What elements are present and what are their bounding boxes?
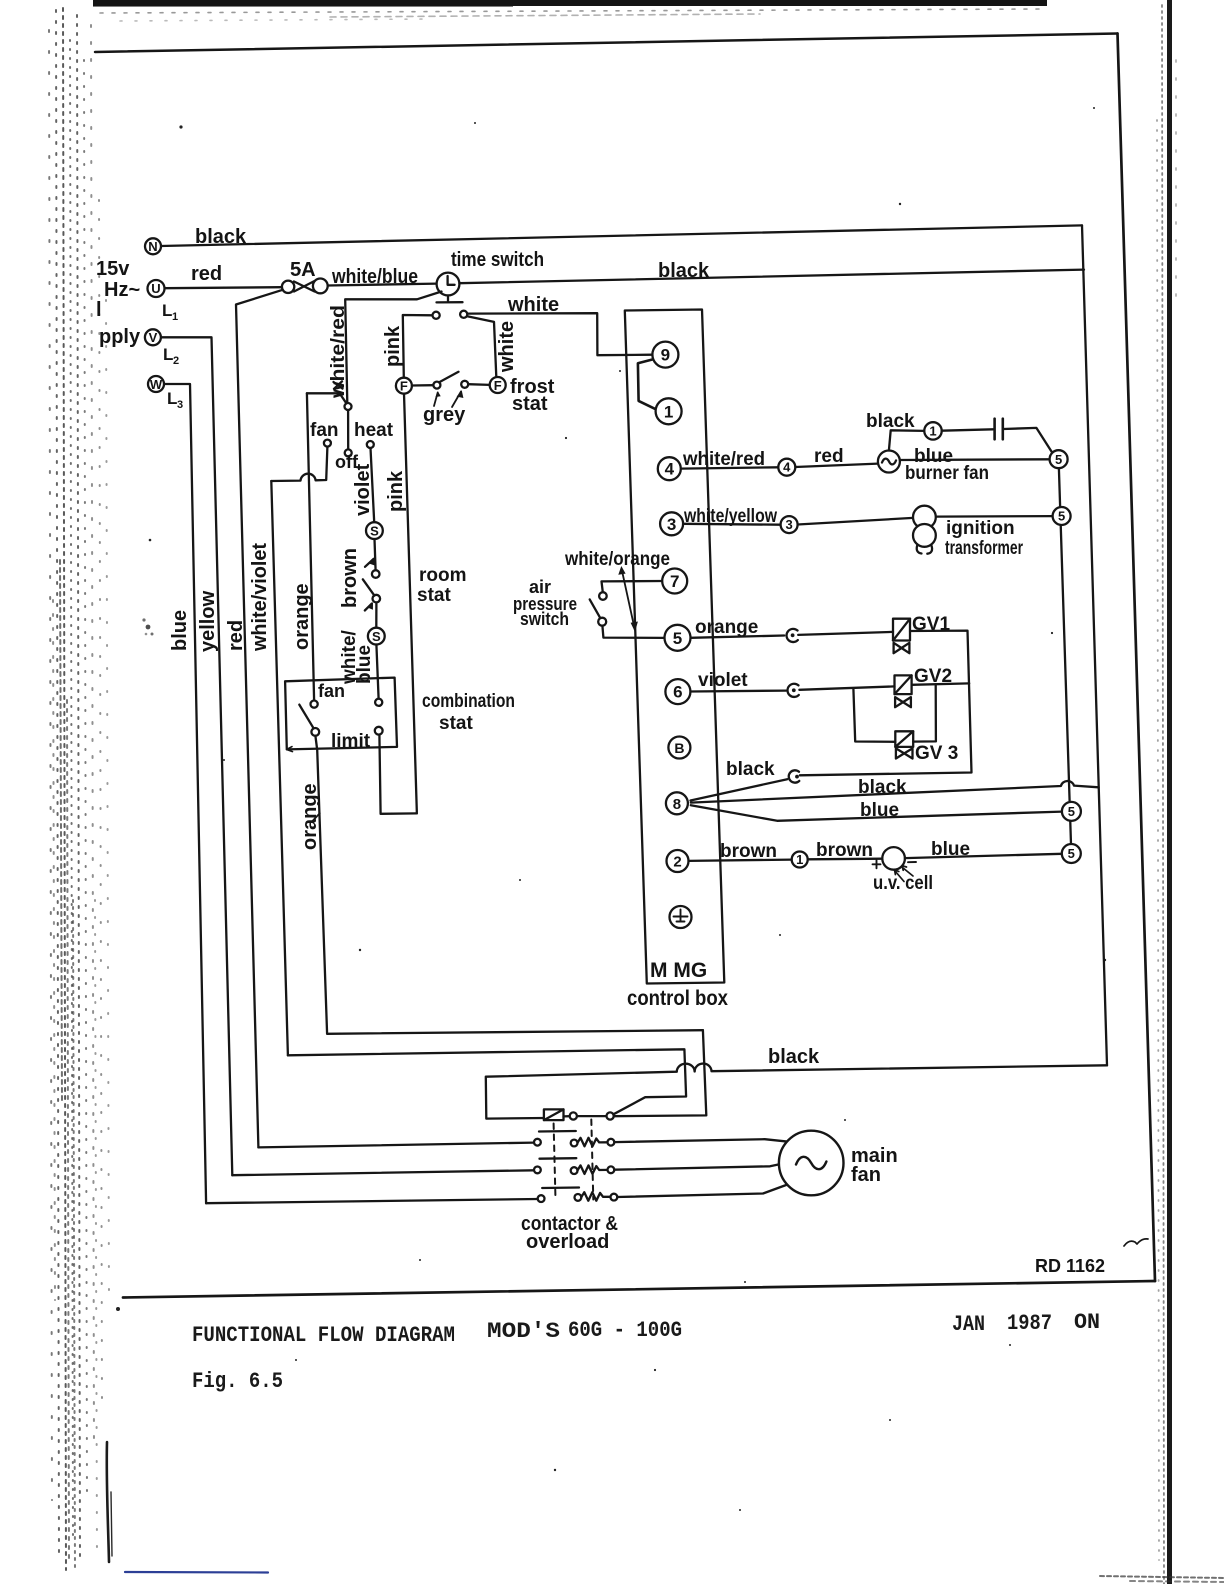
svg-text:red: red (814, 446, 844, 467)
svg-text:fan: fan (310, 420, 339, 441)
terminal 2 (667, 850, 689, 872)
contactor aux contacts (564, 1112, 614, 1119)
svg-text:brown: brown (816, 840, 873, 861)
terminal 7 (662, 569, 687, 594)
jumper bracket terminals 9-1 (638, 359, 656, 409)
svg-text:ignition: ignition (946, 518, 1015, 539)
arrow tick on lower orange (313, 813, 320, 821)
svg-text:black: black (658, 260, 710, 282)
ext terminal 3 (781, 516, 798, 533)
svg-text:grey: grey (423, 404, 466, 426)
valve GV3 (895, 731, 913, 758)
svg-text:5: 5 (1058, 509, 1065, 524)
svg-text:ON: ON (1074, 1310, 1100, 1335)
scan artifact: blue underline bottom-left (125, 1571, 268, 1574)
svg-text:combination: combination (422, 691, 515, 712)
terminal W (148, 376, 164, 392)
svg-text:limit: limit (331, 731, 371, 752)
svg-text:orange: orange (695, 617, 758, 638)
wire pole 1 to main fan (614, 1139, 788, 1142)
wire orange bus upper segment (307, 393, 314, 700)
svg-text:overload: overload (526, 1231, 609, 1253)
svg-text:switch: switch (520, 609, 569, 629)
svg-text:1: 1 (664, 402, 673, 421)
contactor dashed mechanical links (554, 1120, 594, 1200)
svg-text:GV 3: GV 3 (915, 743, 958, 764)
wire white/red drop from time switch to off switch (345, 292, 441, 404)
svg-text:L: L (162, 301, 172, 320)
wire GV1 to right manifold (800, 631, 972, 776)
svg-text:2: 2 (173, 355, 179, 367)
border frame bottom (123, 1281, 1155, 1298)
svg-text:MOD'S: MOD'S (487, 1319, 560, 1344)
terminal 8 (666, 792, 688, 814)
wire blue bus to pole 3 (206, 1199, 538, 1203)
wire orange bus lower from limit fan switch down (315, 736, 703, 1034)
svg-text:time switch: time switch (451, 249, 544, 271)
svg-text:black: black (768, 1046, 820, 1068)
svg-text:white: white (507, 294, 559, 316)
burner fan motor (878, 451, 900, 473)
contactor pole 3 (538, 1188, 618, 1203)
svg-text:burner fan: burner fan (905, 463, 989, 484)
svg-text:black: black (866, 411, 915, 432)
svg-text:4: 4 (783, 460, 791, 475)
terminal 5 (665, 625, 691, 651)
room stat S1 (366, 522, 383, 539)
svg-text:W: W (150, 377, 163, 392)
valve GV1 (893, 619, 910, 654)
terminal earth (670, 906, 692, 928)
wire black terminal 8 to GV manifold with connector (691, 770, 800, 800)
svg-text:5: 5 (673, 629, 682, 648)
MMG control box outline (625, 310, 725, 984)
room stat S2 (368, 628, 385, 645)
terminal 5 second (1053, 507, 1071, 525)
scan artifact: bottom right smudge (1100, 1576, 1224, 1582)
wire white/yellow ext3 to ignition transformer (798, 518, 914, 525)
wire brown terminal 2 to junction 1 (689, 860, 792, 861)
scan artifact: bottom-left pen streak (107, 1442, 109, 1562)
svg-text:GV2: GV2 (914, 666, 952, 687)
wire from off blade to orange bus (307, 392, 340, 394)
border frame top (95, 34, 1118, 53)
svg-text:room: room (419, 565, 467, 586)
svg-text:Hz~: Hz~ (104, 279, 140, 301)
svg-text:15v: 15v (96, 258, 130, 280)
wire blue uv cell to 5 bus (905, 854, 1062, 858)
svg-text:brown: brown (339, 548, 361, 608)
svg-text:3: 3 (785, 517, 792, 532)
svg-text:U: U (151, 281, 160, 296)
terminal 9 (652, 342, 678, 368)
svg-text:V: V (149, 330, 158, 345)
svg-text:black: black (726, 759, 775, 780)
junction terminal 1 on brown wire (792, 852, 808, 868)
combination stat box (285, 678, 397, 752)
svg-text:5: 5 (1068, 846, 1075, 861)
svg-text:white/orange: white/orange (564, 549, 670, 570)
svg-text:FUNCTIONAL FLOW DIAGRAM: FUNCTIONAL FLOW DIAGRAM (192, 1323, 455, 1348)
svg-text:red: red (225, 620, 247, 651)
svg-text:blue: blue (860, 800, 899, 821)
svg-text:white/yellow: white/yellow (683, 506, 777, 527)
terminal 4 (658, 457, 681, 480)
svg-text:GV1: GV1 (912, 614, 950, 635)
wire white/blue from fuse to time switch (328, 284, 437, 286)
scan artifact: top edge black band (93, 0, 1047, 7)
wire red from U to fuse (165, 287, 283, 288)
svg-text:heat: heat (354, 420, 394, 441)
svg-text:black: black (195, 226, 247, 248)
terminal 5 fourth (1062, 844, 1081, 863)
svg-text:stat: stat (439, 713, 473, 734)
wire burner fan top to capacitor branch (889, 430, 924, 450)
scan artifact: left edge noise band (49, 8, 109, 1570)
wire stub terminal 7 to air pressure switch (602, 581, 663, 592)
svg-text:1: 1 (929, 423, 936, 438)
svg-text:stat: stat (512, 393, 548, 415)
wire white/blue from S2 into combination stat (376, 645, 378, 699)
svg-text:1: 1 (172, 311, 178, 323)
svg-text:fan: fan (851, 1164, 881, 1186)
svg-text:F: F (400, 379, 408, 394)
air pressure switch (590, 592, 664, 638)
wire orange terminal 5 to GV1 with connector (691, 629, 893, 642)
svg-text:white: white (496, 321, 518, 373)
svg-text:transformer: transformer (945, 538, 1023, 559)
wire pink from ts contact to frost stat F1 (403, 315, 433, 378)
wire white from ts contact to terminal 9 (467, 313, 652, 355)
valve GV2 (895, 675, 912, 707)
svg-text:pink: pink (385, 470, 407, 512)
svg-text:JAN: JAN (952, 1312, 985, 1337)
svg-text:brown: brown (720, 841, 777, 862)
frost stat wire and contacts (412, 372, 490, 389)
wire from W to blue bus (164, 384, 206, 1203)
off switch contact and blade (334, 381, 352, 456)
contactor pole 2 (534, 1158, 614, 1174)
wire black from time switch to right-side bus (459, 270, 1084, 284)
svg-text:stat: stat (417, 585, 451, 606)
main fan motor (779, 1131, 844, 1196)
right 5 bus vertical (1059, 459, 1072, 853)
svg-text:3: 3 (667, 515, 676, 534)
wire burner fan right to 5 bus (900, 458, 1050, 461)
contactor pole 1 (534, 1131, 614, 1146)
time switch contact right (460, 311, 467, 318)
svg-text:l: l (96, 299, 102, 321)
wire yellow bus to pole 2 (232, 1170, 534, 1175)
wire violet from heat contact to room stat (371, 448, 375, 522)
wire orange drop to aux contact (614, 1030, 707, 1116)
scan artifact: right edge black bar (1167, 0, 1172, 1584)
wire black bus down and to coil with hops (486, 1064, 1107, 1119)
svg-text:S: S (370, 524, 379, 539)
svg-text:7: 7 (670, 572, 679, 591)
terminal 1 (656, 398, 682, 424)
terminal V (145, 329, 161, 345)
time switch contact left (433, 312, 440, 319)
svg-text:control box: control box (627, 987, 728, 1010)
ignition transformer (913, 506, 936, 554)
fuse 5A (282, 279, 328, 294)
combination stat limit contacts (375, 699, 383, 735)
contactor coil (544, 1109, 564, 1120)
terminal glyphs (148, 239, 501, 644)
room stat contacts (363, 539, 380, 628)
wire red bus to pole 1 (258, 1143, 534, 1148)
rotated wire labels (169, 305, 518, 850)
border frame right (1118, 34, 1156, 1282)
terminal 5 top (1050, 450, 1068, 468)
svg-text:3: 3 (177, 399, 183, 411)
terminal B (668, 737, 690, 759)
terminal 5 third (1062, 802, 1081, 821)
terminal 3 (660, 512, 683, 535)
svg-text:S: S (372, 629, 381, 644)
svg-text:5: 5 (1055, 452, 1062, 467)
svg-text:5A: 5A (290, 259, 316, 281)
svg-text:blue: blue (354, 645, 375, 684)
svg-text:9: 9 (661, 346, 670, 365)
white/violet bus (271, 481, 288, 1055)
scan artifact: right edge dotted noise (1157, 5, 1176, 1584)
wire white/violet bus to contactor blade (288, 1049, 686, 1114)
svg-text:pply: pply (99, 326, 141, 348)
svg-text:F: F (494, 378, 502, 393)
svg-text:u.v. cell: u.v. cell (873, 873, 933, 894)
svg-text:8: 8 (673, 796, 681, 813)
svg-text:white/violet: white/violet (249, 543, 271, 652)
svg-text:red: red (191, 263, 222, 285)
wire black terminal 8 to right bus with hop (691, 781, 1099, 803)
caption typewriter text (192, 1310, 1100, 1394)
svg-text:60G - 100G: 60G - 100G (568, 1318, 682, 1343)
svg-text:pink: pink (382, 325, 404, 367)
white/orange pointer line (618, 566, 638, 632)
wire pole 2 to main fan (614, 1164, 779, 1169)
frost stat F1 (396, 378, 412, 394)
wire violet terminal 6 to GV2 with connector (690, 684, 894, 697)
svg-text:1: 1 (796, 852, 803, 867)
svg-text:blue: blue (169, 610, 191, 651)
svg-text:Fig. 6.5: Fig. 6.5 (192, 1369, 283, 1394)
grey arrows (434, 390, 463, 407)
svg-text:violet: violet (352, 463, 374, 516)
terminal N (145, 238, 161, 254)
wire GV2 right to manifold and GV3 right (912, 683, 970, 741)
frost stat F2 (490, 377, 506, 393)
svg-text:M MG: M MG (650, 959, 707, 982)
wire ignition transformer to 5 bus (936, 515, 1053, 518)
wire red branch from fuse to red bus (236, 290, 282, 1147)
right black bus vertical (1082, 225, 1107, 1065)
svg-text:white/red: white/red (328, 305, 349, 399)
wire red ext4 to burner fan (795, 464, 878, 467)
svg-text:6: 6 (673, 683, 682, 702)
svg-text:violet: violet (698, 670, 748, 691)
svg-text:L: L (167, 389, 177, 408)
scan artifact: speckle dots (116, 107, 1106, 1511)
wire from V to yellow bus (161, 337, 232, 1175)
scan artifact: squiggle near RD 1162 (1124, 1239, 1148, 1246)
svg-text:N: N (148, 239, 157, 254)
wire white/blue + pink U link below combination stat (379, 735, 416, 814)
scan artifact: top edge dotted noise (100, 9, 1040, 21)
wire from fan contact to white/violet bus with hop (271, 447, 327, 481)
svg-text:yellow: yellow (197, 590, 219, 652)
svg-text:L: L (163, 345, 173, 364)
capacitor C (942, 419, 1053, 453)
svg-text:5: 5 (1068, 804, 1075, 819)
svg-text:white/blue: white/blue (331, 266, 418, 288)
svg-text:1987: 1987 (1007, 1311, 1052, 1336)
wire stub terminal 3 to ext 3 (683, 523, 781, 526)
heat contact of selector (367, 441, 374, 448)
svg-text:orange: orange (299, 783, 321, 850)
junction 1 capacitor branch (924, 422, 941, 439)
svg-text:white/red: white/red (682, 449, 765, 470)
combination stat fan switch (299, 701, 319, 736)
wire black from N to right-side bus (161, 225, 1082, 246)
svg-text:orange: orange (291, 583, 313, 650)
wire pink from F1 down to U link (404, 394, 417, 814)
wire pole 3 to main fan (617, 1185, 787, 1198)
wire GV2 bypass to GV3 left (853, 689, 895, 742)
svg-text:2: 2 (673, 854, 681, 871)
svg-text:RD 1162: RD 1162 (1035, 1256, 1105, 1276)
terminal U (148, 280, 165, 297)
fan contact of selector (324, 440, 331, 447)
time switch clock (437, 273, 463, 303)
wire brown junction to uv cell (808, 858, 883, 861)
ext terminal 4 (778, 459, 795, 476)
svg-text:blue: blue (931, 839, 970, 860)
svg-text:black: black (858, 777, 907, 798)
u.v. cell (873, 847, 917, 881)
wire blue terminal 8 to 5 bus (691, 805, 1062, 821)
wire white diagonal ts contact to frost stat F2 (467, 316, 496, 377)
svg-text:B: B (674, 740, 684, 756)
wire stub terminal 4 to ext 4 (681, 467, 779, 468)
svg-text:4: 4 (665, 460, 675, 479)
terminal 6 (665, 679, 690, 704)
